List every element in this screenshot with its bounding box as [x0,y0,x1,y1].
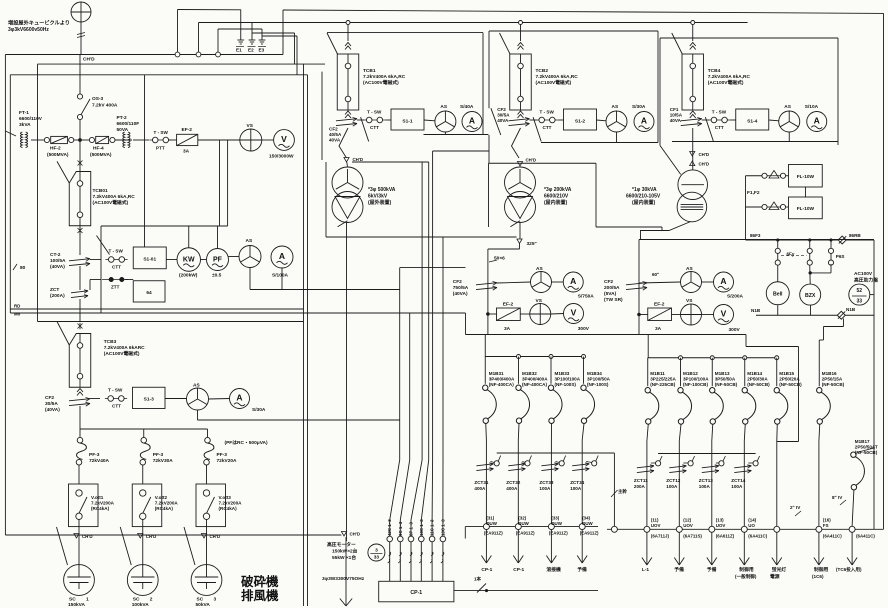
breaker M1B14 [742,388,756,425]
svg-text:150kW×2台: 150kW×2台 [332,548,358,555]
mark below TCB01 [78,227,83,233]
svg-text:CP-1: CP-1 [513,567,524,573]
wire rail y267 [400,267,466,269]
svg-text:52: 52 [857,288,863,294]
svg-text:200A: 200A [634,484,646,489]
svg-text:S1-2: S1-2 [575,119,585,125]
wire CP-1 out [454,590,598,592]
incoming supply meter M0 [71,2,91,22]
earth E1 [237,35,244,44]
breaker TCB2 [510,54,532,110]
svg-text:M1B15: M1B15 [779,371,794,376]
break mark 9C 1~3 [398,552,401,563]
svg-text:CH'D: CH'D [526,158,537,163]
svg-text:64: 64 [146,290,152,296]
contact ZCT33 [559,461,564,466]
ct CF2 unit [509,118,530,127]
ct CF1 unit [681,118,702,127]
node 86F3 a [776,239,779,242]
contact ZCT13 [719,461,724,466]
disconnect tick on source drop [77,33,85,35]
wire to capacitor #1 [78,531,80,566]
breaker TCB1 [337,54,359,110]
svg-text:3P100/100A: 3P100/100A [683,377,709,382]
wire vertical x144.5 [144,75,146,247]
svg-text:高圧モーター: 高圧モーター [327,541,356,548]
wire feed TCB4 [692,23,694,42]
wire S1-1 to AS [424,119,435,122]
svg-text:S1-01: S1-01 [143,257,156,263]
svg-text:2P50/15A: 2P50/15A [822,377,843,382]
svg-text:V.ott3: V.ott3 [219,495,232,500]
svg-text:SC: SC [133,597,140,603]
node out200 646.9 [644,526,650,532]
arrow out200 679.3 [674,532,684,565]
svg-text:CTT: CTT [112,404,121,409]
svg-text:VS: VS [686,298,693,304]
svg-text:CH'D: CH'D [350,532,361,537]
bell Bell [766,282,789,305]
svg-text:(NF-50CB): (NF-50CB) [715,382,738,387]
svg-text:(34): (34) [582,516,590,521]
svg-text:(NF-50CB): (NF-50CB) [747,382,770,387]
node out200 711.8 [709,526,715,532]
svg-text:86RB: 86RB [849,233,861,238]
svg-text:TCB1: TCB1 [363,68,376,74]
svg-text:OS-3: OS-3 [92,96,104,102]
svg-text:HF-2: HF-2 [50,146,61,152]
ammeter switch AS L400 [531,272,552,293]
svg-text:CP-1: CP-1 [481,567,492,573]
svg-text:AS: AS [536,266,543,272]
breaker M1B11 [645,388,659,425]
wire drop x283 [282,10,284,55]
ct CF2-3 [69,398,90,407]
svg-text:S/30A: S/30A [252,407,266,413]
transformer T3 secondary [677,192,707,222]
wire M1B16 feed [823,327,825,341]
zct ZCT14 [734,465,751,473]
diagonal TCB1 corner [327,33,338,54]
svg-text:40VA: 40VA [329,138,341,143]
svg-text:7.2kV400A 6kA,RC: 7.2kV400A 6kA,RC [708,74,751,80]
wire out M1B31 [485,423,488,523]
node feeder 13C 1~3 [440,536,446,542]
svg-text:(200A): (200A) [50,293,65,299]
wire feed TCB2 [520,23,522,42]
wire OS-3 to row [79,120,81,138]
svg-text:*3φ 500kVA: *3φ 500kVA [368,187,396,193]
wire drop M1B34 [583,357,585,384]
frame unit1 box [321,72,323,160]
motor symbol [368,544,385,561]
chevron TCB1 top [345,43,351,50]
svg-text:M1B31: M1B31 [489,371,504,376]
transformer T2 wye [505,167,536,198]
svg-text:ZTT: ZTT [111,285,120,290]
svg-text:400A: 400A [474,486,486,491]
diagonal feeder #2 [120,527,131,565]
aux relay 52-33 [849,284,870,305]
svg-text:M1B13: M1B13 [715,371,730,376]
wire SC3 drop [207,429,209,438]
test switch unit S1-4 [708,117,730,123]
test switch unit S1-2 [536,117,558,123]
bus LV out 200 [607,528,884,530]
svg-text:T - SW: T - SW [108,388,123,393]
svg-text:3P400/400A: 3P400/400A [489,377,515,382]
svg-text:増設屋外キュービクルより: 増設屋外キュービクルより [8,19,70,27]
arrow out (31) [481,530,491,563]
fuse PF-3 #3 [204,437,214,465]
fuse HF-2 [44,136,73,143]
svg-text:(AC100V電磁式): (AC100V電磁式) [708,79,744,86]
svg-text:6600/210V: 6600/210V [544,194,569,200]
svg-text:7.2kV400A 6kARC: 7.2kV400A 6kARC [104,345,145,351]
svg-text:42C 1~3: 42C 1~3 [387,519,392,536]
svg-text:3P400/400A: 3P400/400A [522,377,548,382]
svg-text:N1B: N1B [846,307,856,312]
svg-text:EF-2: EF-2 [182,127,193,133]
wire source drop [80,22,82,55]
bus TCB3 feed [38,321,304,323]
svg-text:電源: 電源 [770,573,780,580]
svg-text:Mo: Mo [14,312,21,317]
svg-text:2ʺ IV: 2ʺ IV [790,504,801,510]
svg-text:ZCT12: ZCT12 [666,478,680,483]
ct CF2 200 [626,282,647,291]
wire drop x294 [294,33,296,64]
svg-text:40VA: 40VA [670,118,682,123]
node tap M1B13 [710,356,714,360]
switch VS main [240,129,262,151]
svg-text:CF1: CF1 [670,107,679,112]
wire T2 secondary [519,222,521,239]
wire top rail L3 [218,28,262,30]
wire drop M1B15 [776,358,778,387]
transformer T2 delta [505,192,536,223]
svg-text:P6S: P6S [836,254,845,259]
fuse N1B right [837,311,845,319]
test switch ZTT [102,279,128,281]
svg-text:UOV: UOV [716,523,726,528]
wire PF-3 to switch #1 [78,465,80,484]
svg-text:(AC100V電磁式): (AC100V電磁式) [104,350,140,357]
wire unit drop TCB1 [339,128,348,158]
frame right border [883,13,885,529]
svg-text:1本: 1本 [474,576,482,583]
wire unit drop TCB2 [512,128,521,158]
svg-text:3P100/100A: 3P100/100A [555,377,581,382]
zct ZCT12 [669,465,686,473]
diagonal unit frame TCB4 [705,117,713,141]
svg-text:(屋内装置): (屋内装置) [544,199,568,206]
svg-text:2: 2 [150,597,153,603]
svg-text:(16): (16) [823,518,831,523]
earth mark CH'D #3 [201,534,206,539]
svg-text:(6A411C): (6A411C) [823,534,842,539]
svg-text:8P 1~3: 8P 1~3 [409,521,414,536]
svg-text:2P50/20A: 2P50/20A [779,377,800,382]
link dashed [781,255,807,257]
svg-text:(32): (32) [518,516,526,521]
wire S1-4 to AS [769,119,779,122]
wire VS row L400 [488,313,497,315]
wire drop M1B14 [744,358,746,387]
svg-text:N1B: N1B [751,308,761,313]
svg-text:AS: AS [440,104,447,110]
wire T-SW to EF-2 [169,139,177,141]
breaker TCB3 [69,334,91,388]
wire out M1B11 [647,424,648,526]
wire PT-2 to T-SW [115,139,132,141]
wire to capacitor #3 [206,531,208,566]
contact ZCT11 [656,461,661,466]
svg-text:ZCT: ZCT [50,287,59,293]
wire aux U [745,335,747,347]
svg-text:A: A [570,276,576,286]
wire out M1B16 [818,424,821,526]
svg-text:300V: 300V [578,326,590,332]
wire T3 secondary [641,222,691,240]
node tap M1B14 [743,356,747,360]
wire out M1B32 [517,423,520,523]
svg-text:(一般制御): (一般制御) [735,573,757,580]
bus CH'D [5,54,283,56]
wire ZCT down [79,299,81,322]
node feed TCB4 [691,21,695,25]
relay box S1-01 [133,247,166,269]
wire ct to tsw TCB1 [357,119,364,121]
svg-text:7.2kV400A 6kA,RC: 7.2kV400A 6kA,RC [536,74,579,80]
node out (33) [548,524,554,530]
frame left edge outer [4,55,6,536]
svg-text:(屋外装置): (屋外装置) [368,199,392,206]
svg-text:750/5A: 750/5A [453,285,469,291]
svg-text:6kV/3kV: 6kV/3kV [368,194,388,200]
svg-text:(500MVA): (500MVA) [47,152,69,158]
svg-text:T - SW: T - SW [154,130,169,135]
wire T2 box link [596,226,662,228]
svg-text:80: 80 [20,265,26,271]
diagonal unit frame TCB1 [361,117,369,141]
svg-text:40VA: 40VA [497,118,509,123]
wire PF AS [229,256,240,258]
wire feeder 9C 1~3 [400,313,409,581]
wire T1 bottom tap [338,221,348,227]
svg-text:CF2: CF2 [453,279,462,285]
svg-text:3: 3 [375,548,378,554]
contact ZCT34 [592,461,597,466]
node main row junction [78,138,81,141]
svg-text:TCB3: TCB3 [104,339,117,345]
svg-text:L-1: L-1 [642,567,650,573]
test switch unit S1-1 [363,117,385,123]
frame top edge a [38,63,326,65]
svg-text:TCB2: TCB2 [536,68,549,74]
node out200 852.1 [849,526,855,532]
node feeder 11C 1~3 [429,536,435,542]
mark TCB3 top [78,323,83,329]
svg-text:(11): (11) [651,518,659,523]
svg-text:50VA: 50VA [117,127,129,133]
transformer T3 primary [678,170,708,200]
svg-text:(NF-225CB): (NF-225CB) [650,382,675,387]
bus 86F3 [746,239,839,241]
svg-text:(AC100V電磁式): (AC100V電磁式) [363,79,399,86]
svg-text:溶接機: 溶接機 [546,566,561,573]
svg-text:150kVA: 150kVA [68,602,86,608]
wire KW stub [188,226,190,248]
svg-text:(33): (33) [551,516,559,521]
svg-text:UOV: UOV [651,523,661,528]
disconnect OS-3 [77,94,82,99]
wire CF2-3 right [90,398,100,400]
break mark 10C 1~3 [419,552,422,563]
wire PF-3 to switch #2 [142,465,144,484]
svg-text:(NF-50CB): (NF-50CB) [855,450,878,455]
svg-text:(6A411C): (6A411C) [856,534,875,539]
voltmeter V R200 [714,305,734,325]
capacitor SC 3 [191,565,222,596]
svg-text:6600/210-105V: 6600/210-105V [626,194,661,200]
svg-text:3A: 3A [655,326,662,332]
svg-text:7.2kV200A: 7.2kV200A [219,501,243,506]
box CP-1 [379,581,454,602]
breaker TCB4 [682,54,704,110]
svg-text:TCB01: TCB01 [93,188,109,194]
wire FL link [786,175,789,177]
wire ct to tsw TCB2 [530,119,537,121]
chevron TCB4 top [690,43,696,50]
svg-text:6600/110F: 6600/110F [117,121,140,127]
wire AS row R200 [639,282,681,283]
svg-text:制御用: 制御用 [739,566,754,573]
wire VS to V [262,139,274,141]
svg-text:(AC100V電磁式): (AC100V電磁式) [536,79,572,86]
wire Mo [10,312,465,314]
svg-text:10/5A: 10/5A [670,113,683,118]
svg-text:ZCT11: ZCT11 [634,478,648,483]
svg-text:3kVA: 3kVA [19,122,31,128]
svg-text:(12): (12) [683,518,691,523]
wire PF-3 to switch #3 [206,465,208,484]
arrow out200 646.9 [642,532,652,565]
capacitor SC 2 [127,565,158,596]
wire TCB01 down [79,226,81,255]
svg-text:CT-2: CT-2 [50,252,61,258]
node tap M1B12 [679,356,683,360]
ammeter switch AS R200 [681,272,702,293]
wire drop M1B11 [647,358,649,387]
svg-text:AS: AS [612,104,619,110]
earth mark CH'D #2 [138,534,143,539]
svg-text:300V: 300V [729,327,741,333]
svg-text:DUW: DUW [582,521,593,526]
switch V.ott2 [132,484,162,527]
relay box 64 [133,281,165,302]
diagonal TCB01 corner [57,161,69,183]
svg-text:DUW: DUW [551,521,562,526]
breaker M1B12 [678,388,692,425]
wire to capacitor #2 [142,531,144,566]
svg-text:CH'D: CH'D [83,57,95,63]
chevron TCB1 bottom [345,111,351,118]
buzzer BZX [800,284,821,305]
ammeter A TCB4 [807,112,827,132]
transformer FT-1 [20,132,27,148]
node feed TCB2 [519,21,523,25]
diagonal feeder #3 [184,527,195,565]
svg-text:10C 1~3: 10C 1~3 [419,519,424,536]
wire PT secondary drop a [219,140,221,226]
frame vertical x36.6 [37,64,39,321]
svg-text:S/40A: S/40A [460,104,474,110]
node 86F3 c [830,239,833,242]
chevron TCB2 top [518,43,524,50]
svg-text:(13): (13) [716,518,724,523]
svg-text:AS: AS [246,238,253,244]
ammeter A L400 [563,272,583,292]
node tap M1B15 [775,356,779,360]
node out200 679.3 [676,526,682,532]
svg-text:(40VA): (40VA) [45,407,60,413]
earth E2 [249,35,256,44]
capacitor SC 1 [64,565,95,596]
rail zct bypass 200 [658,453,756,455]
earth mark T2 [517,162,522,167]
svg-text:(NF-400CA): (NF-400CA) [522,382,547,387]
svg-text:主幹: 主幹 [618,488,627,495]
svg-text:UOV: UOV [683,523,693,528]
svg-text:(RC4kA): (RC4kA) [155,506,174,511]
wire main 200 drop [613,453,615,526]
wire AS return [249,268,251,290]
ammeter switch AS TCB2 [606,111,627,132]
svg-text:(6A611Z): (6A611Z) [716,534,735,539]
wire M1B17 out [852,490,854,526]
contact pair c [830,240,832,248]
frame T1 box [325,162,327,227]
wire unit return TCB4 [672,141,838,143]
svg-text:33: 33 [374,555,380,561]
svg-text:RD: RD [14,304,20,309]
wire FT-1 stub [5,131,16,136]
wire zct link [90,279,101,281]
frame 200V top [639,239,874,241]
wattmeter KW [177,248,201,272]
svg-text:(NF-100S): (NF-100S) [555,382,577,387]
switch VS R200 [681,304,702,325]
contact ZCT12 [688,461,693,466]
svg-text:(TW SR): (TW SR) [604,297,623,303]
svg-text:ZCT33: ZCT33 [539,480,553,485]
diagonal TCB3 corner [57,322,69,346]
svg-text:EF-2: EF-2 [654,302,665,308]
svg-text:(AC100V電磁式): (AC100V電磁式) [93,199,129,206]
svg-text:100kVA: 100kVA [132,602,150,608]
break mark 11C 1~3 [430,552,433,563]
svg-text:PF: PF [213,256,223,263]
wire drop M1B13 [711,358,713,387]
wire S1-3 to AS [165,398,187,400]
wire switch out #2 [142,520,144,532]
wire CT-2 down [79,266,81,290]
transformer T1 delta [332,192,363,223]
test switch CTT [105,257,127,263]
wire S1-01 to KW [166,259,177,261]
ammeter A TCB1 [462,112,482,132]
